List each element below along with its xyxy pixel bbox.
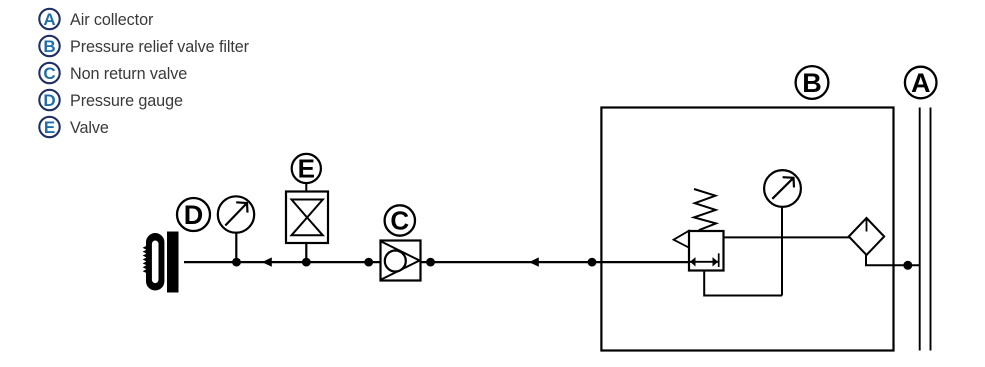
air consumer symbol (left end) teeth (143, 246, 147, 273)
svg-text:A: A (43, 10, 55, 29)
svg-text:E: E (298, 154, 315, 184)
label circle D (177, 198, 210, 231)
air consumer bar (167, 232, 179, 293)
pressure gauge D (218, 196, 254, 232)
svg-text:D: D (184, 200, 204, 230)
air collector line 2 (930, 108, 932, 351)
junction dot at gauge D (232, 258, 241, 267)
legend badge C (39, 63, 59, 83)
box B outline (601, 108, 893, 351)
regulator spring (694, 189, 716, 230)
flow arrow left (mid line) (529, 257, 539, 266)
regulator relief triangle (674, 231, 689, 248)
wire: E circle to valve body (305, 183, 307, 191)
wire: valve E stem (305, 243, 307, 262)
svg-text:Non return valve: Non return valve (70, 65, 187, 83)
air collector line 1 (919, 108, 921, 351)
wire: main line middle segment (421, 261, 690, 263)
label circle A (905, 67, 937, 99)
check valve C ball (385, 251, 406, 272)
svg-text:C: C (43, 64, 55, 83)
junction dot right of check valve C (426, 258, 435, 267)
regulator body (689, 231, 724, 271)
svg-text:Valve: Valve (70, 119, 109, 137)
svg-text:C: C (390, 206, 409, 236)
legend badge E (39, 117, 59, 137)
svg-text:E: E (44, 118, 55, 137)
air consumer ring (stadium) (146, 233, 164, 291)
legend badge A (39, 9, 59, 29)
filter diamond (849, 218, 884, 255)
junction dot at collector (903, 261, 912, 270)
svg-text:D: D (43, 91, 55, 110)
valve E body (286, 192, 328, 244)
flow arrow left (near D) (262, 257, 272, 266)
pressure gauge in box B (764, 170, 801, 207)
label circle C (385, 205, 415, 235)
junction dot left of check valve C (364, 258, 373, 267)
label circle B (796, 66, 829, 99)
check valve C seat (381, 242, 419, 280)
svg-text:B: B (802, 68, 822, 98)
wire: gauge B stem (781, 207, 783, 296)
junction dot at valve E (302, 258, 311, 267)
svg-text:A: A (911, 68, 931, 98)
svg-text:Pressure relief valve filter: Pressure relief valve filter (70, 38, 250, 56)
check valve C body (381, 241, 421, 281)
legend badge D (39, 90, 59, 110)
label circle E (292, 154, 321, 184)
wire: regulator outlet (724, 236, 850, 238)
wire: regulator feedback loop (704, 271, 782, 296)
legend badge B (39, 36, 59, 56)
svg-text:Pressure gauge: Pressure gauge (70, 92, 183, 110)
wire: filter to collector (866, 254, 920, 266)
valve E hourglass (292, 200, 323, 236)
wire: main line left segment (184, 261, 381, 263)
wire: gauge D stem (235, 233, 237, 262)
regulator internal flow arrow (690, 253, 719, 267)
svg-text:Air collector: Air collector (70, 11, 154, 29)
filter inner tick (866, 220, 868, 232)
svg-text:B: B (43, 37, 55, 56)
junction dot before box B (588, 258, 597, 267)
